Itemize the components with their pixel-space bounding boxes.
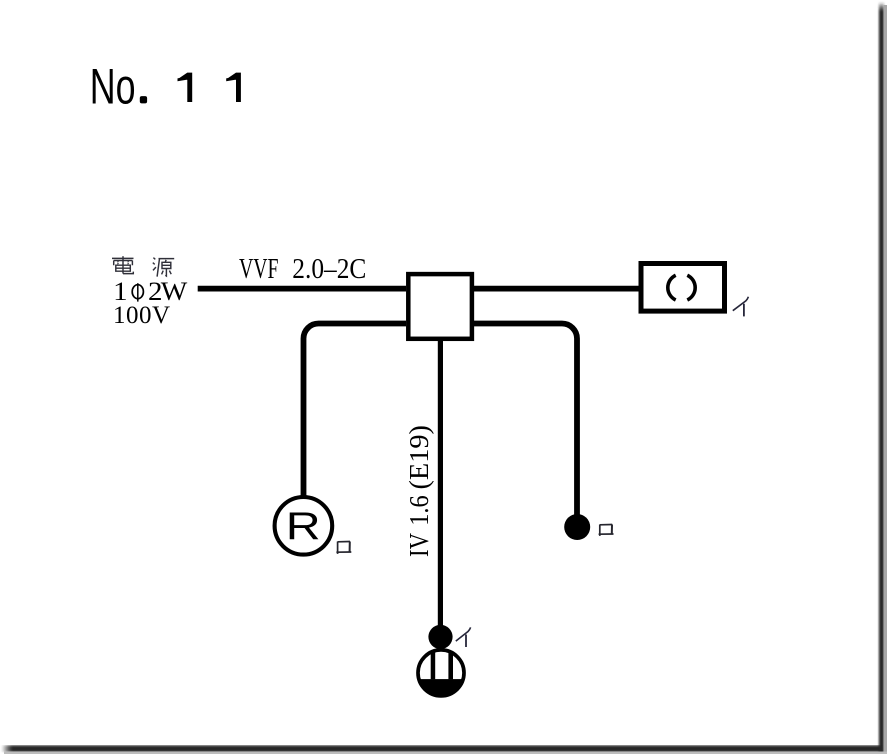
ceiling rose contact symbol ( ) [668, 275, 676, 300]
svg-text:(E19): (E19) [404, 425, 434, 490]
wire W5 conduit run [438, 341, 443, 626]
svg-text:1.6: 1.6 [404, 495, 434, 526]
svg-text:100V: 100V [113, 302, 170, 329]
svg-text:R: R [286, 505, 321, 548]
wire W4 box to switch ro [474, 324, 577, 517]
junction box B1 (outlet box) [408, 274, 472, 339]
power source label kanji 電 [112, 256, 134, 273]
wire W1 source feed [198, 286, 406, 292]
svg-text:IV: IV [404, 533, 434, 557]
label ロ switch ro [599, 525, 614, 536]
title No.11 [90, 59, 241, 115]
lamp receptacle R [275, 497, 333, 555]
wire W2 box to ceiling rose [474, 286, 640, 292]
power source label 1φ2W [113, 277, 188, 306]
wire W3 box to lamp receptacle [304, 324, 407, 498]
label イ ceiling rose [733, 297, 749, 317]
ceiling rose U1 (angular) [641, 264, 725, 312]
svg-text:2.0–2C: 2.0–2C [292, 253, 366, 285]
label ロ lamp receptacle [336, 542, 351, 554]
svg-text:No: No [90, 59, 136, 115]
page edge shadow right [879, 2, 884, 754]
page margin grey bottom [4, 752, 887, 754]
page margin grey right [884, 5, 887, 754]
outlet CO (concealed outlet symbol) [416, 648, 466, 698]
label イ switch i [456, 627, 471, 647]
svg-text:VVF: VVF [239, 253, 279, 285]
switch S-i (single pole switch) [428, 625, 452, 649]
page edge shadow bottom [2, 745, 882, 752]
switch S-ro (single pole switch) [564, 514, 590, 540]
power source label kanji 源 [153, 258, 174, 277]
